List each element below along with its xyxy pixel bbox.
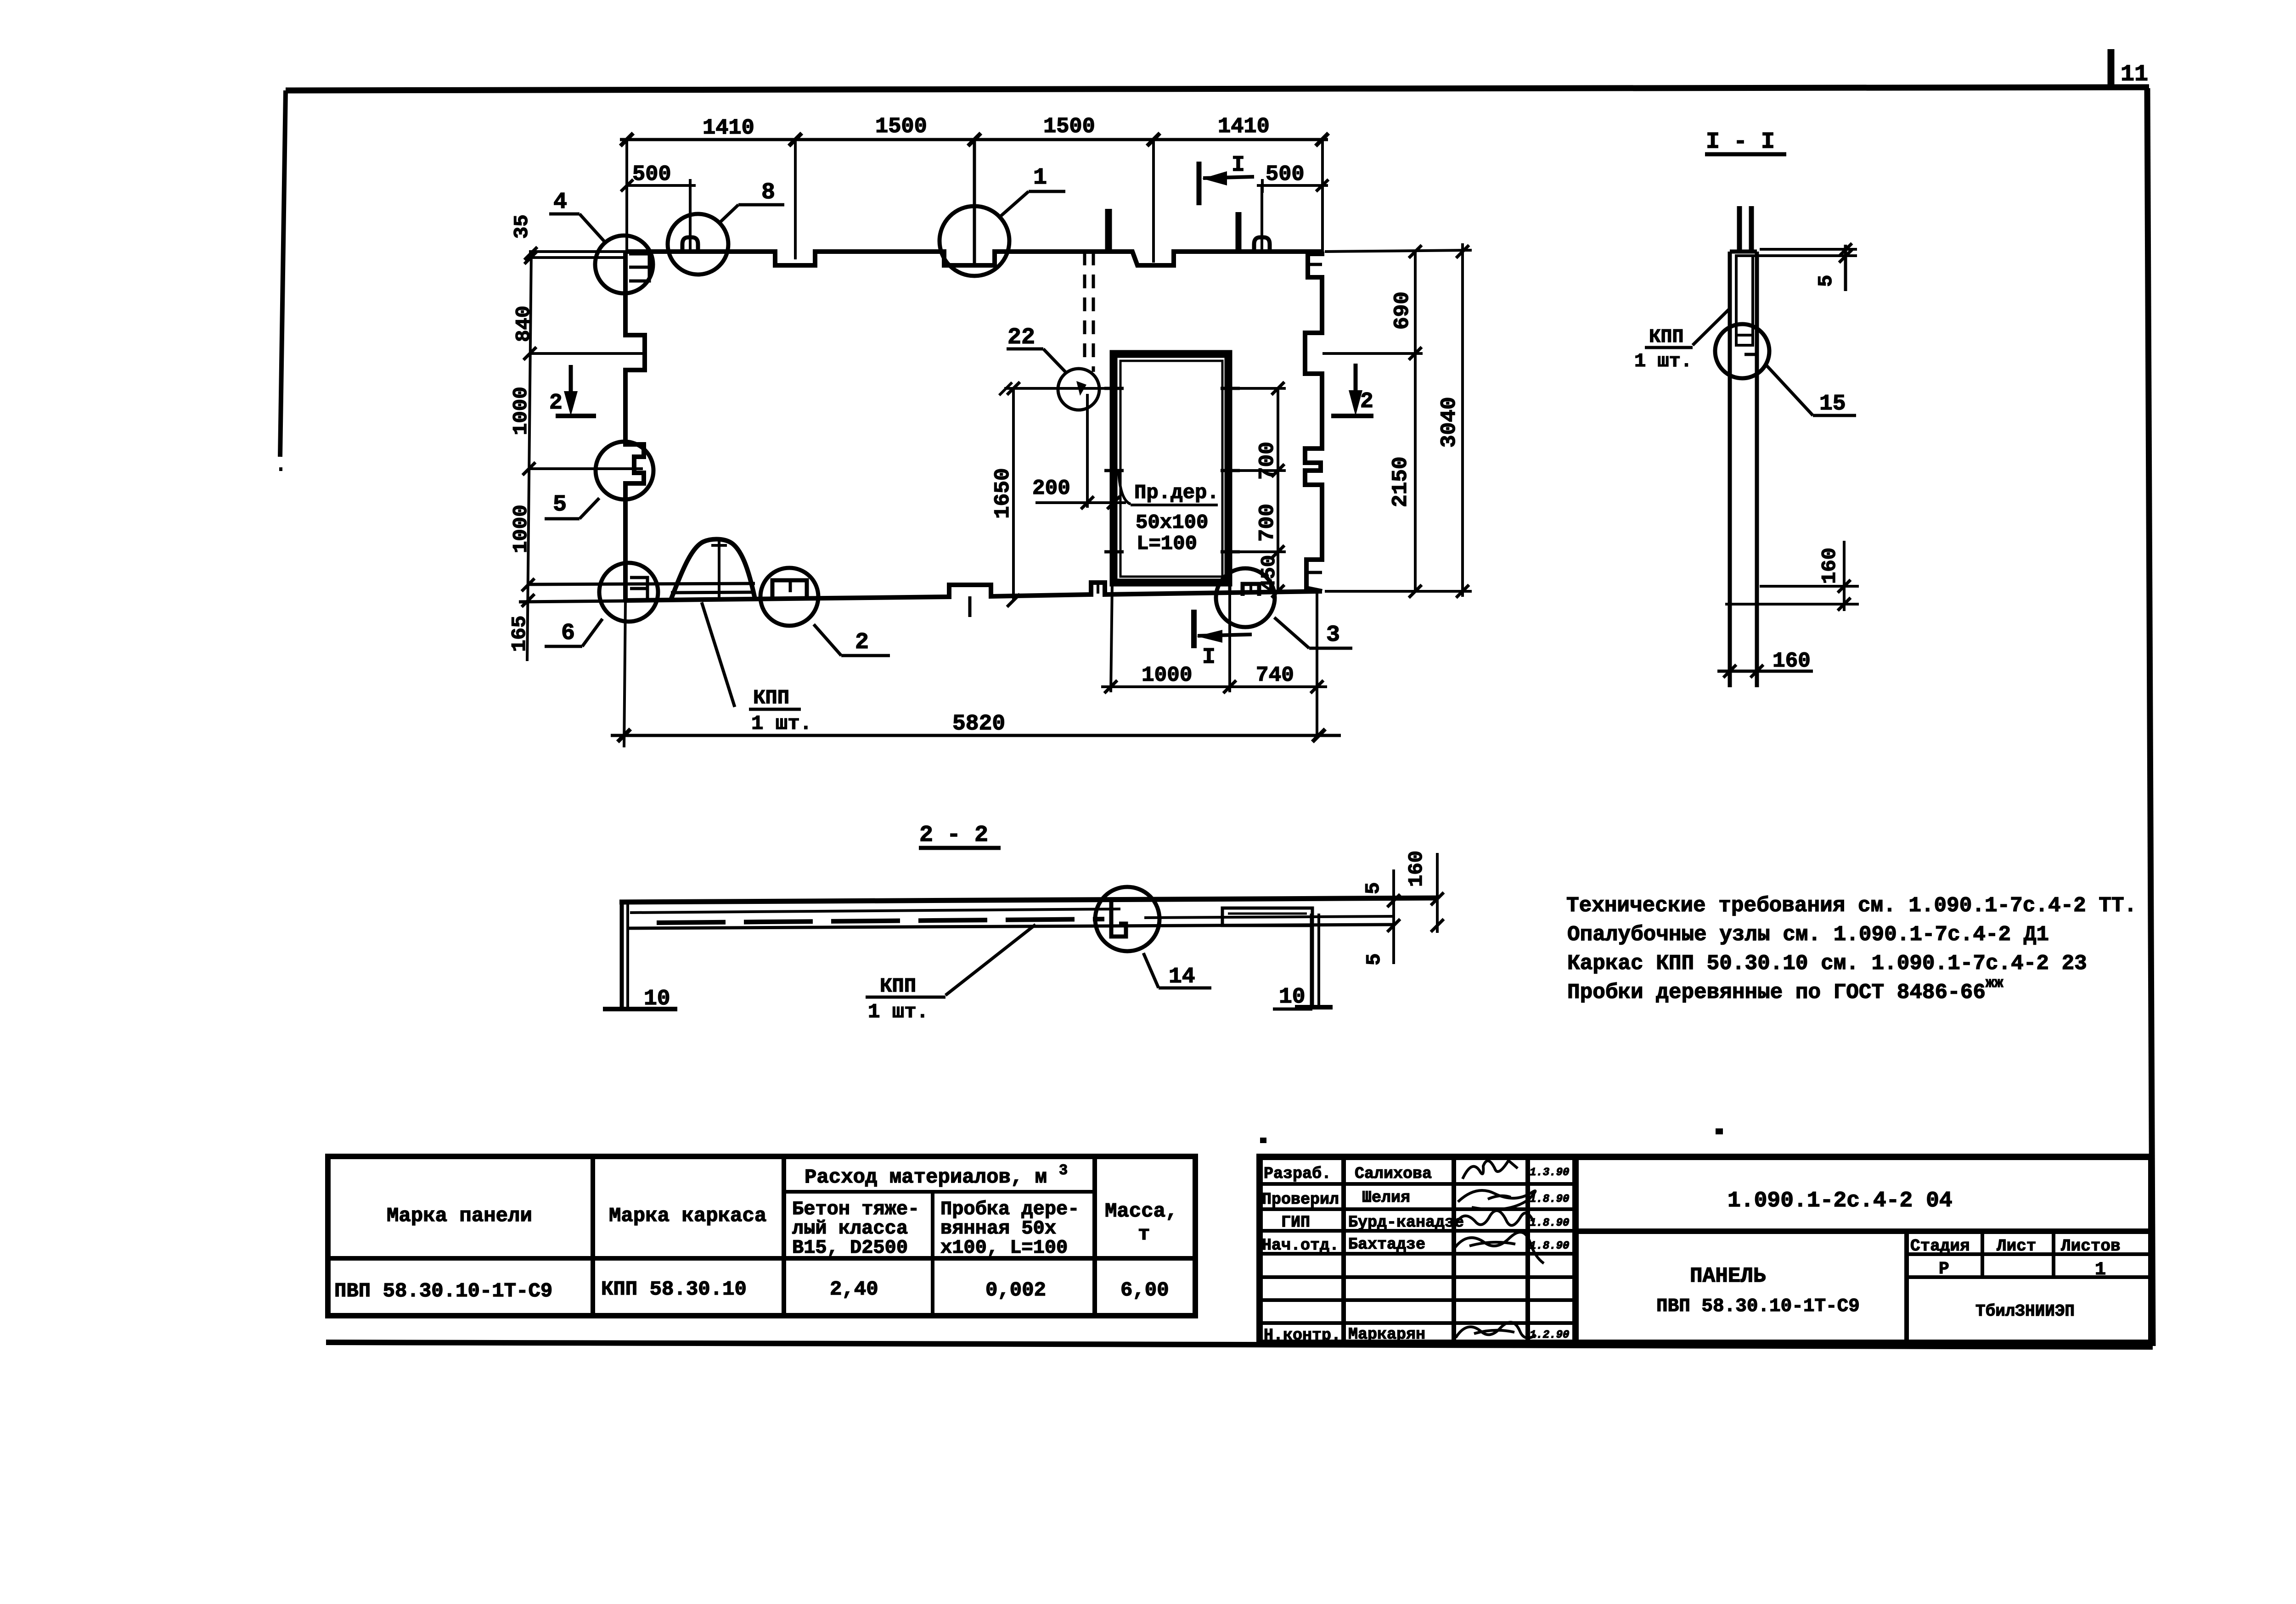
bottom parallel line through hill [529, 583, 755, 593]
slab inner line left [630, 909, 1120, 913]
dim line 3040 [1437, 243, 1469, 598]
svg-text:5: 5 [1362, 882, 1385, 894]
svg-text:1: 1 [1033, 165, 1047, 191]
rebar bars above pocket [1739, 206, 1751, 253]
TECH NOTES [1566, 894, 2137, 1004]
dim 200 [1032, 394, 1126, 509]
svg-text:5: 5 [553, 492, 567, 518]
svg-text:I - I: I - I [1706, 129, 1775, 155]
header beton [792, 1198, 919, 1259]
org name [1975, 1302, 2075, 1321]
svg-text:165: 165 [508, 616, 531, 652]
svg-text:2: 2 [549, 391, 563, 415]
svg-text:3: 3 [1326, 622, 1340, 648]
header marka karkasa [609, 1205, 766, 1228]
dim line 700 700 450 [1255, 382, 1284, 598]
svg-text:Стадия: Стадия [1910, 1237, 1970, 1256]
top border [286, 87, 2149, 90]
svg-text:I: I [1202, 645, 1216, 670]
label 3 [1274, 617, 1352, 648]
detail circle 2 [760, 568, 818, 626]
svg-text:1 шт.: 1 шт. [751, 712, 812, 735]
svg-text:Расход материалов, м: Расход материалов, м [805, 1166, 1047, 1189]
svg-text:11: 11 [2121, 62, 2148, 88]
svg-text:3040: 3040 [1437, 397, 1461, 448]
svg-text:15: 15 [1819, 392, 1846, 416]
svg-text:840: 840 [512, 306, 535, 342]
row nach otd [1262, 1232, 1569, 1263]
svg-text:2 - 2: 2 - 2 [919, 822, 988, 848]
svg-text:Масса,: Масса, [1105, 1200, 1177, 1223]
dim label 1500 [1043, 115, 1095, 139]
slab inner line right [1144, 916, 1394, 918]
title I-I [1705, 129, 1786, 155]
note line 4 [1567, 975, 2003, 1004]
svg-text:3: 3 [1059, 1162, 1068, 1179]
svg-text:Н.контр.: Н.контр. [1264, 1326, 1341, 1345]
note line 1 [1566, 894, 2137, 918]
channel box right [1222, 908, 1312, 925]
svg-text:Листов: Листов [2061, 1237, 2121, 1256]
svg-text:Нач.отд.: Нач.отд. [1262, 1236, 1339, 1255]
MATERIAL TABLE [328, 1156, 1195, 1316]
panel name cell [1656, 1231, 1907, 1343]
table verticals [593, 1156, 1095, 1316]
svg-text:6,00: 6,00 [1120, 1279, 1169, 1302]
bottom dim 5820 [611, 600, 1341, 747]
svg-text:Проверил: Проверил [1262, 1190, 1339, 1209]
left leg label 10 [644, 987, 670, 1011]
svg-text:1 шт.: 1 шт. [1634, 350, 1692, 372]
detail circle I-I [1715, 324, 1769, 378]
svg-text:740: 740 [1256, 663, 1294, 687]
interior text Pr.der. [1119, 472, 1219, 555]
svg-text:1.090.1-2с.4-2 04: 1.090.1-2с.4-2 04 [1728, 1189, 1953, 1213]
detail circle 8 [668, 214, 728, 275]
svg-text:Бетон тяже-: Бетон тяже- [792, 1198, 919, 1220]
svg-text:ПВП 58.30.10-1Т-С9: ПВП 58.30.10-1Т-С9 [334, 1280, 552, 1303]
label 8 [719, 179, 784, 223]
detail circle 1 [940, 206, 1009, 276]
dim label 1410 [1218, 115, 1270, 139]
detail circle 5 [596, 442, 653, 499]
dim line 1650 vertical [991, 382, 1020, 607]
label 5 [545, 492, 599, 519]
svg-text:22: 22 [1007, 325, 1035, 351]
label 14 [1143, 953, 1211, 989]
note line 3 [1567, 952, 2087, 976]
row gip [1281, 1211, 1569, 1232]
svg-text:700: 700 [1255, 504, 1279, 542]
svg-text:Марка каркаса: Марка каркаса [609, 1205, 766, 1228]
data row [334, 1280, 552, 1303]
svg-text:Марка панели: Марка панели [387, 1205, 532, 1228]
section mark 2 right [1331, 364, 1373, 416]
left border remnant dot [279, 467, 282, 471]
left extension lines [528, 252, 645, 469]
svg-text:Каркас КПП 50.30.10 см. 1.090.: Каркас КПП 50.30.10 см. 1.090.1-7с.4-2 2… [1567, 952, 2087, 976]
svg-text:КПП: КПП [1649, 326, 1684, 348]
bottom border [326, 1342, 2153, 1347]
stadia list listov header [1907, 1231, 2151, 1277]
page number 11 [2121, 62, 2148, 88]
svg-text:700: 700 [1255, 442, 1279, 480]
svg-text:690: 690 [1390, 292, 1414, 330]
page number tick [2108, 49, 2115, 90]
svg-text:1.3.90: 1.3.90 [1530, 1167, 1569, 1179]
signature table rows [1260, 1184, 1576, 1323]
stadia values [1939, 1259, 2106, 1280]
svg-text:160: 160 [1405, 851, 1428, 887]
detail circle 14 [1095, 887, 1159, 951]
svg-text:50х100: 50х100 [1136, 511, 1208, 534]
PLAN [508, 115, 1472, 747]
left border (partial) [280, 90, 286, 457]
svg-text:I: I [1232, 153, 1245, 178]
svg-text:В15, D2500: В15, D2500 [792, 1237, 908, 1259]
section mark I bottom [1194, 610, 1252, 670]
svg-text:1000: 1000 [510, 505, 533, 553]
svg-text:КПП 58.30.10: КПП 58.30.10 [601, 1278, 747, 1301]
pocket outer [1730, 252, 1757, 345]
svg-text:ТбилЗНИИЭП: ТбилЗНИИЭП [1975, 1302, 2075, 1321]
svg-text:Опалубочные узлы см. 1.090.1-7: Опалубочные узлы см. 1.090.1-7с.4-2 Д1 [1567, 923, 2049, 947]
panel left edge with keyways [625, 252, 645, 600]
svg-text:1410: 1410 [1218, 115, 1270, 139]
svg-text:Лист: Лист [1997, 1237, 2036, 1256]
panel right edge with keyways [1305, 252, 1322, 591]
stray scan mark dot [1260, 1138, 1266, 1143]
label 2 [814, 624, 890, 656]
bottom edge extension left [519, 601, 625, 602]
door opening thick outline [1114, 354, 1230, 593]
svg-text:Пробка дере-: Пробка дере- [940, 1198, 1079, 1220]
svg-text:х100, L=100: х100, L=100 [940, 1237, 1068, 1259]
dim 500 right [1257, 163, 1328, 193]
signature table verticals [1344, 1157, 1576, 1343]
section mark I top [1199, 153, 1254, 205]
slab dashed line [657, 919, 1104, 923]
svg-text:5820: 5820 [952, 712, 1005, 736]
svg-text:35: 35 [511, 214, 534, 239]
svg-text:ПАНЕЛЬ: ПАНЕЛЬ [1690, 1264, 1766, 1288]
KPP label 2-2 [866, 925, 1035, 1024]
detail circle 22 [1058, 369, 1099, 410]
panel top edge with notches [625, 252, 1322, 265]
label 1 [1001, 165, 1065, 216]
detail circle 4 [595, 236, 653, 293]
rebar stub left-mid [1105, 209, 1112, 252]
anchor staple left [682, 185, 698, 252]
rebar stub right-mid [1236, 212, 1242, 252]
row n kontr [1264, 1322, 1569, 1345]
svg-text:Разраб.: Разраб. [1264, 1165, 1331, 1183]
bottom dim 1000 740 [1101, 583, 1327, 735]
svg-text:160: 160 [1818, 548, 1841, 584]
label 6 [545, 619, 602, 646]
dashed rebar lines [1085, 252, 1093, 372]
wall right line [1755, 252, 1759, 687]
svg-text:2: 2 [855, 629, 869, 656]
table horizontals [328, 1192, 1195, 1258]
svg-text:10: 10 [644, 987, 670, 1011]
svg-text:1.8.90: 1.8.90 [1530, 1240, 1569, 1252]
svg-text:6: 6 [561, 620, 575, 646]
svg-text:4: 4 [553, 189, 567, 215]
svg-text:1000: 1000 [510, 387, 533, 435]
right border [2147, 88, 2153, 1346]
dim 160 right [1405, 851, 1444, 933]
svg-text:т: т [1138, 1223, 1150, 1246]
svg-text:Пр.дер.: Пр.дер. [1134, 482, 1219, 505]
title block outer frame [1260, 1157, 2151, 1343]
note line 2 [1567, 923, 2049, 947]
svg-text:2: 2 [1360, 389, 1373, 414]
svg-text:500: 500 [1266, 163, 1305, 187]
wall left line [1728, 252, 1732, 687]
dim 160 bottom [1717, 649, 1813, 678]
svg-text:5: 5 [1815, 275, 1838, 287]
svg-text:14: 14 [1169, 965, 1195, 989]
svg-text:200: 200 [1032, 477, 1070, 500]
svg-text:вянная 50х: вянная 50х [940, 1217, 1056, 1239]
dim line 690 2150 [1389, 245, 1422, 598]
section mark 2 left [549, 365, 596, 416]
TITLE BLOCK [1260, 1157, 2151, 1345]
dim 500 left [621, 163, 696, 193]
svg-text:1500: 1500 [875, 115, 927, 139]
label 4 [549, 189, 605, 242]
table frame [328, 1156, 1195, 1316]
svg-text:10: 10 [1279, 985, 1306, 1010]
svg-text:жж: жж [1986, 975, 2003, 992]
panel bottom edge with small notches [625, 583, 1322, 617]
svg-text:Маркарян: Маркарян [1348, 1325, 1425, 1344]
svg-text:Салихова: Салихова [1355, 1165, 1432, 1183]
lifting loop hill [671, 539, 755, 600]
svg-text:1.2.90: 1.2.90 [1530, 1329, 1569, 1341]
svg-text:ГИП: ГИП [1281, 1213, 1310, 1232]
svg-text:2150: 2150 [1389, 457, 1412, 507]
slab bottom line [627, 925, 1394, 928]
dim hline at y846 to door [999, 382, 1114, 395]
svg-text:450: 450 [1258, 555, 1281, 591]
dim label 1500 [875, 115, 927, 139]
detail circle 3 [1216, 568, 1275, 627]
right extension lines [1322, 250, 1472, 591]
row proveril [1262, 1189, 1569, 1210]
dim label 1410 [703, 116, 754, 140]
row razrab [1264, 1161, 1569, 1183]
dim 5 top right [1754, 243, 1857, 291]
right leg label 10 [1273, 985, 1312, 1010]
door inner dim connectors [1231, 388, 1286, 552]
stray scan mark dash [1716, 1128, 1723, 1134]
doc number cell [1576, 1189, 2151, 1231]
SECTION I-I [1634, 129, 1859, 687]
svg-text:1650: 1650 [991, 468, 1015, 519]
svg-text:500: 500 [632, 163, 671, 187]
door edge tick marks [1104, 388, 1240, 552]
svg-text:КПП: КПП [753, 687, 789, 710]
svg-text:КПП: КПП [880, 975, 916, 998]
svg-text:1.8.90: 1.8.90 [1530, 1193, 1569, 1206]
SECTION 2-2 [603, 822, 1444, 1024]
svg-text:1500: 1500 [1043, 115, 1095, 139]
svg-text:Бурд-канадзе: Бурд-канадзе [1348, 1213, 1464, 1232]
svg-text:Шелия: Шелия [1362, 1189, 1410, 1207]
svg-text:160: 160 [1773, 649, 1811, 673]
detail circle 6 [599, 563, 658, 622]
svg-text:1 шт.: 1 шт. [868, 1001, 929, 1024]
svg-text:L=100: L=100 [1137, 533, 1197, 555]
left leg [603, 903, 677, 1009]
svg-text:Бахтадзе: Бахтадзе [1348, 1235, 1425, 1254]
extension lines from top dim [627, 140, 1322, 264]
left dim labels [508, 214, 535, 652]
svg-text:1.8.90: 1.8.90 [1530, 1217, 1569, 1229]
KPP label plan [702, 602, 812, 735]
KPP label I-I [1634, 308, 1730, 372]
label 15 [1766, 365, 1856, 416]
svg-text:Пробки деревянные по ГОСТ 8486: Пробки деревянные по ГОСТ 8486-66 [1567, 981, 1986, 1004]
svg-text:ПВП 58.30.10-1Т-С9: ПВП 58.30.10-1Т-С9 [1656, 1296, 1860, 1317]
label 22 [1007, 325, 1066, 373]
title 2-2 [919, 822, 1001, 848]
svg-text:Р: Р [1939, 1259, 1949, 1279]
svg-text:1410: 1410 [703, 116, 754, 140]
header marka paneli [387, 1205, 532, 1228]
header rashod [805, 1162, 1068, 1189]
top dimension line [620, 133, 1328, 146]
svg-text:2,40: 2,40 [830, 1278, 878, 1301]
slab top line [619, 898, 1437, 902]
right leg [1295, 914, 1333, 1007]
header probka [940, 1198, 1079, 1259]
dim 5 5 right [1362, 869, 1400, 965]
left dim line vertical [522, 247, 537, 661]
svg-text:5: 5 [1363, 953, 1386, 965]
svg-text:лый класса: лый класса [792, 1217, 908, 1239]
svg-text:1000: 1000 [1142, 663, 1192, 687]
svg-text:Технические требования см. 1.0: Технические требования см. 1.090.1-7с.4-… [1566, 894, 2137, 918]
anchor staple right [1254, 185, 1270, 252]
svg-text:8: 8 [761, 179, 775, 206]
header massa [1105, 1200, 1177, 1246]
svg-text:1: 1 [2095, 1260, 2106, 1280]
dim 160 mid [1725, 541, 1859, 611]
svg-text:0,002: 0,002 [985, 1279, 1046, 1302]
